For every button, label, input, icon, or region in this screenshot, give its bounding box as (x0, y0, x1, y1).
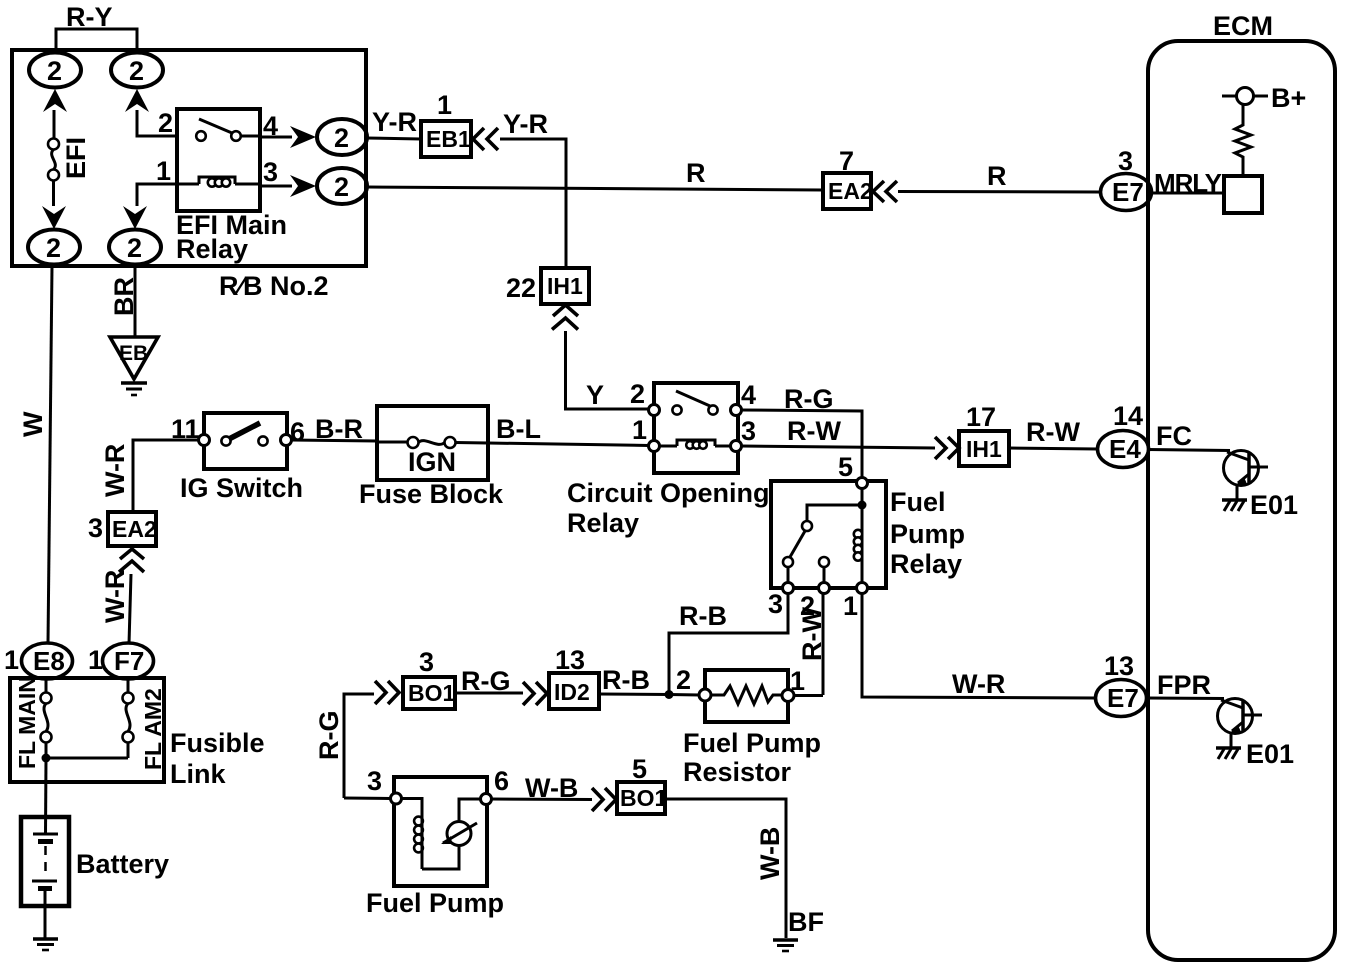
wire battery to ground (44, 891, 47, 938)
fuel pump motor circuit (402, 799, 481, 870)
svg-text:R-B: R-B (679, 601, 727, 631)
arrowheads into BO1 3 (375, 681, 399, 704)
svg-text:5: 5 (838, 452, 853, 482)
wire oval to EB1 (366, 138, 421, 139)
connector IH1 pin 22 (541, 268, 589, 304)
svg-text:13: 13 (555, 645, 585, 675)
EFI Main Relay box (177, 109, 260, 211)
COR switch (672, 391, 717, 415)
svg-text:B+: B+ (1271, 83, 1306, 113)
IG Switch box (204, 413, 287, 469)
wire W-B fuel pump to BO1 (491, 798, 592, 802)
svg-text:1: 1 (843, 591, 858, 621)
wire R-Y jumper (56, 29, 137, 52)
svg-text:FC: FC (1156, 421, 1192, 451)
wire square to resistor (1242, 160, 1245, 176)
svg-text:R-G: R-G (461, 666, 511, 696)
svg-text:E7: E7 (1107, 683, 1139, 713)
EFI Main Relay switch (196, 119, 241, 141)
svg-text:R-W: R-W (787, 416, 841, 446)
svg-text:Battery: Battery (76, 849, 169, 879)
connector 2 output R (317, 168, 367, 204)
wire R to E7 (898, 190, 1101, 194)
svg-text:3: 3 (88, 513, 103, 543)
wire R-B ID2 to junction (599, 693, 669, 697)
svg-text:E7: E7 (1112, 177, 1144, 207)
svg-text:B-R: B-R (315, 414, 363, 444)
svg-text:2: 2 (158, 108, 173, 138)
IG Switch contacts (199, 423, 292, 446)
wire pin4 to arrow (260, 136, 292, 139)
svg-text:EA2: EA2 (112, 516, 157, 542)
fuel pump pin circles (391, 793, 492, 805)
wire coil to pin 3 (235, 183, 260, 186)
wire pin5 to junction (861, 488, 864, 504)
wire E7 to MRLY square (1151, 192, 1226, 195)
wire to battery (44, 758, 48, 834)
arrowheads up into EA2 (119, 549, 144, 572)
svg-text:1: 1 (437, 90, 452, 120)
connector ID2 pin 13 (549, 673, 599, 709)
svg-text:FPR: FPR (1157, 670, 1211, 700)
svg-text:BO1: BO1 (408, 680, 456, 706)
wire connector to relay pin 2 (137, 110, 177, 136)
svg-text:R-Y: R-Y (66, 2, 113, 32)
junction dot R-B (665, 690, 674, 699)
svg-text:Relay: Relay (890, 549, 962, 579)
svg-text:3: 3 (419, 647, 434, 677)
Fuel Pump Resistor box (705, 670, 788, 722)
svg-text:2: 2 (127, 233, 142, 263)
wire EFI fuse bottom lead (52, 181, 55, 207)
svg-text:1: 1 (790, 666, 805, 696)
arrowheads into EB1 (473, 128, 498, 150)
svg-text:2: 2 (46, 233, 61, 263)
svg-text:Y: Y (586, 380, 604, 410)
connector IH1 pin 17 (959, 431, 1009, 466)
wire BR to ground (134, 266, 137, 337)
svg-text:E01: E01 (1250, 490, 1298, 520)
svg-text:EB: EB (119, 342, 148, 365)
ground E01 upper (1222, 500, 1247, 511)
Fusible Link box (10, 678, 164, 782)
connector 2 output Y-R (317, 119, 367, 155)
svg-text:EFI: EFI (61, 137, 91, 179)
wire pin3 to arrow (260, 185, 292, 188)
wire IH1 to E4 (1009, 448, 1098, 449)
svg-text:5: 5 (632, 754, 647, 784)
wire pin1 drop to connector (137, 184, 160, 206)
relay switch arm (783, 505, 862, 583)
svg-text:17: 17 (966, 402, 996, 432)
wire R-G BO1 to ID2 (455, 692, 523, 695)
Fuel Pump box (394, 777, 487, 886)
svg-text:6: 6 (290, 417, 305, 447)
svg-text:Resistor: Resistor (683, 757, 792, 787)
connector E7 pin 13 (1096, 680, 1147, 717)
connector EA2 pin 7 (823, 173, 873, 209)
svg-text:3: 3 (768, 589, 783, 619)
wire W-R to F7 (129, 574, 131, 644)
connector E4 pin 14 (1098, 431, 1149, 468)
svg-text:Fusible: Fusible (170, 728, 265, 758)
svg-text:1: 1 (632, 415, 647, 445)
svg-text:FL MAIN: FL MAIN (14, 676, 40, 769)
connector 2 top-right (111, 53, 163, 88)
node B+ (1222, 88, 1268, 105)
wire IG switch to EA2 (133, 440, 204, 512)
svg-text:2: 2 (334, 123, 349, 153)
fuse IGN (377, 437, 488, 448)
relay block box R/B No.2 (12, 50, 366, 266)
svg-text:11: 11 (171, 414, 200, 444)
svg-text:1: 1 (156, 156, 171, 186)
resistor pin circles (699, 689, 794, 702)
COR pin circles (649, 405, 742, 452)
wire B-L (488, 443, 649, 446)
svg-text:E4: E4 (1109, 434, 1141, 464)
wire W battery feed (48, 266, 52, 643)
Circuit Opening Relay box (654, 383, 738, 473)
svg-text:IH1: IH1 (966, 436, 1002, 462)
svg-text:IG Switch: IG Switch (180, 473, 303, 503)
connector F7 pin 1 (103, 643, 154, 679)
svg-text:E01: E01 (1246, 739, 1294, 769)
svg-text:BR: BR (109, 277, 139, 316)
COR coil (659, 440, 731, 449)
wire resistor pin1 to R-W riser (794, 694, 823, 697)
svg-text:Fuel Pump: Fuel Pump (366, 888, 504, 918)
svg-text:22: 22 (506, 273, 536, 303)
svg-text:W-B: W-B (525, 773, 578, 803)
svg-text:E8: E8 (33, 646, 65, 676)
svg-text:Fuse Block: Fuse Block (359, 479, 504, 509)
svg-text:2: 2 (334, 172, 349, 202)
svg-text:IGN: IGN (408, 447, 456, 477)
fusible link FL AM2 (123, 679, 134, 758)
svg-text:W-B: W-B (755, 827, 785, 880)
svg-text:F7: F7 (114, 646, 144, 676)
wire R-B relay pin3 to junction (669, 594, 788, 691)
svg-text:Fuel: Fuel (890, 487, 946, 517)
wire EFI fuse top lead (53, 110, 56, 139)
transistor FPR driver (1218, 699, 1263, 749)
connector E7 pin 3 (1101, 174, 1152, 211)
arrowheads into EA2 (873, 181, 897, 202)
wire relay pin4 internal (241, 135, 260, 138)
svg-text:13: 13 (1104, 651, 1134, 681)
svg-text:W-R: W-R (100, 570, 130, 623)
connector 2 bottom-right (109, 230, 161, 265)
svg-text:ID2: ID2 (554, 679, 590, 705)
fusible link FL MAIN (41, 679, 52, 758)
wire junction to resistor pin2 (669, 693, 700, 697)
connector E8 pin 1 (22, 643, 73, 679)
wire R long run (367, 187, 823, 190)
EA2 connector pin 3 (108, 512, 157, 546)
wire relay pin1 to E7 FPR (862, 594, 1096, 698)
svg-text:W-R: W-R (952, 669, 1005, 699)
wire R-G up from fuel pump (344, 694, 374, 798)
arrowheads into ID2 (523, 682, 547, 705)
Fuel Pump Relay box (771, 481, 886, 588)
svg-text:Relay: Relay (567, 508, 639, 538)
svg-text:BF: BF (788, 907, 824, 937)
arrow right to Y-R connector (290, 126, 316, 148)
arrow up into top-left connector (43, 89, 67, 112)
svg-text:R-W: R-W (1026, 417, 1080, 447)
ground BF (773, 940, 798, 951)
relay coil vertical (854, 505, 862, 583)
arrowheads into BO1 5 (592, 788, 616, 811)
battery cells (32, 834, 58, 889)
svg-text:1: 1 (4, 645, 19, 675)
wire fuel pump pin3 lead (344, 797, 391, 801)
svg-text:W: W (18, 411, 48, 437)
wire relay pin2 down (822, 594, 825, 695)
arrowheads up into IH1 (552, 305, 578, 330)
svg-text:3: 3 (263, 157, 278, 187)
svg-text:7: 7 (839, 146, 854, 176)
arrow up under top-right connector (125, 89, 149, 112)
relay middle contact (819, 557, 829, 583)
resistor B+ pullup (1235, 105, 1251, 160)
wire FC to transistor (1148, 450, 1230, 451)
junction dot relay (858, 501, 867, 510)
svg-text:R-G: R-G (784, 384, 834, 414)
Battery box (21, 817, 69, 906)
resistor element (711, 686, 782, 704)
relay bottom pins 3 2 1 (783, 583, 868, 594)
MRLY driver square (1224, 176, 1262, 213)
svg-text:6: 6 (494, 766, 509, 796)
svg-text:3: 3 (1118, 146, 1133, 176)
wire Y down to circuit opening relay (566, 331, 649, 409)
svg-text:ECM: ECM (1213, 11, 1273, 41)
arrowheads into IH1 17 (935, 437, 959, 459)
svg-text:EB1: EB1 (426, 126, 471, 152)
connector BO1 pin 3 (403, 677, 456, 709)
svg-text:R-B: R-B (602, 665, 650, 695)
svg-text:4: 4 (741, 380, 756, 410)
ground battery (33, 939, 58, 950)
svg-text:2: 2 (47, 56, 62, 86)
svg-text:Link: Link (170, 759, 226, 789)
svg-text:2: 2 (630, 379, 645, 409)
svg-text:Pump: Pump (890, 519, 965, 549)
arrow down into bottom-left connector (42, 206, 66, 229)
connector BO1 pin 5 (617, 782, 668, 814)
wire R-G COR pin4 to relay pin5 (741, 410, 862, 478)
fuse EFI (48, 139, 59, 181)
connector 2 top-left (29, 53, 81, 88)
svg-text:IH1: IH1 (547, 273, 583, 299)
connector EB1 (421, 121, 471, 157)
svg-text:1: 1 (88, 645, 103, 675)
junction dot fusible link (42, 754, 51, 763)
svg-text:14: 14 (1113, 401, 1143, 431)
wire BO1 to BF ground (665, 799, 786, 938)
transistor FC driver (1224, 451, 1269, 501)
svg-text:2: 2 (676, 665, 691, 695)
EFI Main Relay coil (199, 177, 235, 187)
svg-text:B-L: B-L (496, 414, 541, 444)
wire B-R (291, 440, 377, 441)
svg-text:Fuel Pump: Fuel Pump (683, 728, 821, 758)
svg-text:R: R (987, 161, 1007, 191)
svg-text:Y-R: Y-R (503, 109, 548, 139)
svg-text:R⁄B No.2: R⁄B No.2 (219, 271, 329, 301)
svg-text:Y-R: Y-R (372, 107, 417, 137)
svg-text:3: 3 (367, 766, 382, 796)
svg-text:Circuit Opening: Circuit Opening (567, 478, 770, 508)
svg-text:3: 3 (741, 416, 756, 446)
wire Y-R to IH1 (500, 139, 566, 268)
wire FL AM2 to junction (46, 757, 128, 760)
ground E01 lower (1216, 748, 1241, 759)
ECM box (1148, 41, 1335, 960)
svg-text:R-G: R-G (314, 711, 344, 761)
arrow right to R connector (290, 175, 316, 197)
svg-text:EA2: EA2 (828, 178, 873, 204)
Fuse Block box (377, 406, 488, 480)
ground EB triangle (110, 337, 158, 395)
connector 2 bottom-left (28, 230, 80, 265)
wire relay coil row (160, 183, 199, 186)
svg-text:FL AM2: FL AM2 (140, 688, 166, 770)
svg-text:R: R (686, 158, 706, 188)
wire R-W COR pin3 to IH1 (741, 446, 935, 448)
svg-text:W-R: W-R (100, 444, 130, 497)
relay pin 5 (857, 478, 868, 489)
arrow down into bottom-right connector (123, 206, 147, 229)
svg-text:Relay: Relay (176, 234, 248, 264)
wire FPR to transistor (1147, 697, 1224, 701)
svg-text:2: 2 (129, 56, 144, 86)
svg-text:BO1: BO1 (620, 785, 668, 811)
